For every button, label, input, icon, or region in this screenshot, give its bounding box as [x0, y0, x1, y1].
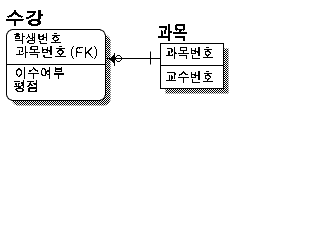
wire relationship line [106, 58, 161, 60]
attribute 평점 [14, 80, 37, 92]
optionality circle (pixel ring) [115, 55, 122, 62]
attribute 과목번호 [16, 46, 66, 58]
entity 수강 shadow [12, 35, 111, 106]
divider 과목 [161, 65, 224, 67]
divider 수강 [7, 64, 106, 66]
FK tag (FK) [71, 46, 97, 59]
entity 과목 shadow [166, 49, 229, 94]
attribute 과목번호 [166, 47, 213, 59]
entity 과목 box [161, 44, 224, 89]
attribute 교수번호 [166, 71, 213, 83]
attribute 이수여부 [16, 67, 64, 79]
attribute 학생번호 [14, 33, 61, 44]
entity title 과목 [158, 24, 187, 41]
entity 수강 box [7, 30, 106, 101]
crow-foot arrow + bar at 수강 end (pixel path) [110, 53, 115, 66]
cardinality tick near 과목 [150, 52, 152, 65]
entity title 수강 [6, 10, 43, 26]
